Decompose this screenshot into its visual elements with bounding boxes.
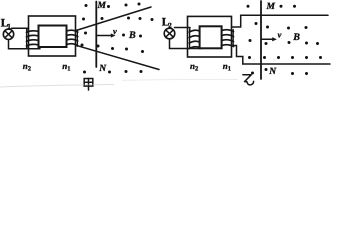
svg-text:1: 1 xyxy=(67,66,70,73)
svg-text:N: N xyxy=(98,64,107,74)
svg-text:N: N xyxy=(268,67,277,77)
svg-text:1: 1 xyxy=(228,66,231,73)
svg-text:v: v xyxy=(278,29,282,39)
svg-text:M: M xyxy=(266,2,276,12)
svg-text:v: v xyxy=(113,26,117,36)
svg-text:1: 1 xyxy=(7,23,11,31)
svg-text:2: 2 xyxy=(168,22,172,30)
svg-text:M: M xyxy=(97,1,107,11)
svg-text:2: 2 xyxy=(28,66,31,73)
svg-text:2: 2 xyxy=(195,66,198,73)
svg-text:B: B xyxy=(128,30,136,41)
svg-text:B: B xyxy=(292,32,300,43)
